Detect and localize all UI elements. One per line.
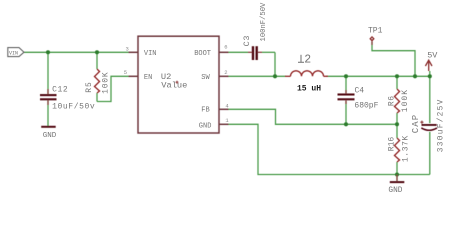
svg-text:100K: 100K — [401, 89, 410, 112]
svg-text:C3: C3 — [242, 35, 252, 47]
svg-text:2: 2 — [304, 53, 311, 66]
svg-text:EN: EN — [144, 74, 152, 82]
svg-text:5V: 5V — [427, 51, 438, 61]
svg-text:C12: C12 — [52, 86, 68, 95]
svg-text:2: 2 — [224, 69, 227, 76]
svg-text:100nF/50V: 100nF/50V — [260, 2, 268, 42]
svg-text:330uF/25V: 330uF/25V — [438, 98, 446, 152]
svg-text:1: 1 — [225, 117, 229, 124]
svg-text:100K: 100K — [101, 71, 110, 93]
svg-text:GND: GND — [43, 132, 57, 140]
svg-text:CAP: CAP — [411, 114, 421, 134]
svg-text:R16: R16 — [387, 137, 396, 152]
svg-text:R6: R6 — [387, 95, 396, 106]
svg-text:10uF/50v: 10uF/50v — [52, 103, 95, 112]
svg-text:GND: GND — [199, 122, 212, 130]
svg-text:VIN: VIN — [9, 51, 18, 57]
svg-text:SW: SW — [201, 74, 210, 82]
svg-text:FB: FB — [201, 106, 209, 114]
svg-text:C4: C4 — [355, 87, 365, 96]
svg-text:1.37K: 1.37K — [402, 135, 411, 162]
svg-text:Value: Value — [161, 80, 187, 90]
svg-text:3: 3 — [126, 45, 129, 52]
svg-text:VIN: VIN — [144, 50, 157, 58]
svg-text:4: 4 — [225, 102, 229, 109]
svg-text:5: 5 — [124, 69, 127, 76]
svg-text:R5: R5 — [85, 81, 94, 93]
svg-text:GND: GND — [388, 187, 402, 194]
svg-text:680pF: 680pF — [354, 102, 378, 111]
svg-text:15 uH: 15 uH — [297, 85, 321, 94]
svg-text:6: 6 — [224, 44, 227, 51]
svg-text:TP1: TP1 — [368, 26, 383, 35]
svg-text:BOOT: BOOT — [194, 50, 211, 58]
